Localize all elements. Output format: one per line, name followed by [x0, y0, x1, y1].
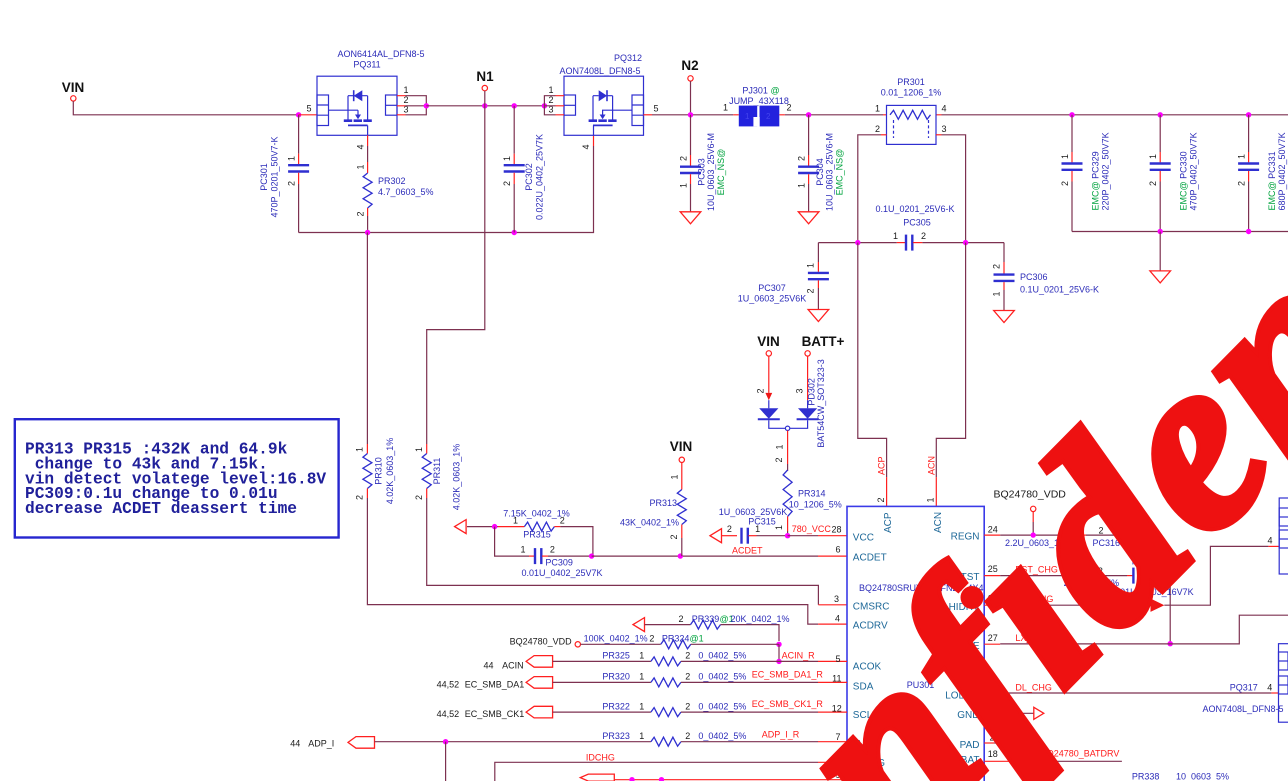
svg-text:5: 5	[653, 104, 658, 114]
svg-text:1: 1	[287, 156, 297, 161]
svg-text:4.02K_0603_1%: 4.02K_0603_1%	[385, 438, 395, 505]
svg-text:44,52: 44,52	[437, 709, 460, 719]
net arrow (left) for PC315	[710, 529, 722, 543]
capacitor PC303 with ground	[679, 115, 727, 224]
svg-text:PR324: PR324	[662, 634, 690, 644]
transistor PQ316 (right edge, partial)	[1279, 498, 1288, 574]
svg-text:PR301: PR301	[897, 77, 925, 87]
resistor PR313 43K	[620, 463, 686, 557]
svg-text:VIN: VIN	[670, 439, 693, 454]
svg-text:1: 1	[404, 85, 409, 95]
svg-text:2: 2	[797, 156, 807, 161]
svg-text:2: 2	[875, 124, 880, 134]
transistor PQ311 AON6414AL_DFN8-5 (P-FET)	[317, 49, 429, 150]
svg-text:1: 1	[356, 164, 366, 169]
net arrow ACDET off-page (left)	[455, 520, 467, 534]
svg-text:EMC@ PC329: EMC@ PC329	[1091, 151, 1101, 210]
svg-text:1: 1	[806, 263, 816, 268]
red flow arrow on DH wire	[1151, 599, 1165, 612]
svg-text:2: 2	[678, 614, 683, 624]
svg-text:ACIN: ACIN	[502, 661, 524, 671]
svg-text:EC_SMB_DA1: EC_SMB_DA1	[465, 680, 525, 690]
capacitor PC307 with ground	[738, 243, 829, 322]
svg-text:43K_0402_1%: 43K_0402_1%	[620, 518, 679, 528]
capacitor PC316	[1005, 526, 1121, 549]
svg-text:2: 2	[502, 181, 512, 186]
svg-text:0.1U_0201_25V6-K: 0.1U_0201_25V6-K	[1020, 285, 1099, 295]
wire EMC cap bottom bus with ground	[1072, 231, 1288, 233]
svg-text:PQ311: PQ311	[353, 60, 380, 70]
svg-text:0_0402_5%: 0_0402_5%	[698, 651, 746, 661]
svg-text:470P_0402_50V7K: 470P_0402_50V7K	[1189, 132, 1199, 210]
svg-text:780_VCC: 780_VCC	[792, 524, 832, 534]
svg-text:PR338: PR338	[1132, 772, 1160, 781]
svg-text:ACP: ACP	[877, 456, 887, 475]
svg-text:BAT54CW_SOT323-3: BAT54CW_SOT323-3	[816, 359, 826, 447]
svg-text:1: 1	[797, 183, 807, 188]
svg-text:AON7408L_DFN8-5: AON7408L_DFN8-5	[1202, 704, 1283, 714]
svg-text:100K_0402_1%: 100K_0402_1%	[584, 634, 648, 644]
net arrow REGN (right)	[1121, 528, 1131, 540]
svg-text:PC306: PC306	[1020, 272, 1048, 282]
pin 4 stub of PQ312	[593, 135, 595, 146]
wire DH net to PQ316	[984, 604, 1000, 606]
wire wrap connecting pins 1,2,3	[406, 96, 427, 115]
capacitor PC301	[259, 115, 309, 233]
svg-text:2: 2	[649, 634, 654, 644]
svg-text:1: 1	[679, 183, 689, 188]
capacitor PC304 with ground	[797, 115, 845, 224]
svg-text:220P_0402_50V7K: 220P_0402_50V7K	[1101, 132, 1111, 210]
wire stub into PQ311 pin 5	[299, 114, 317, 116]
svg-text:2: 2	[685, 651, 690, 661]
svg-text:PR323: PR323	[602, 731, 630, 741]
wire PJ301 to PR301	[785, 114, 883, 116]
svg-text:PC305: PC305	[903, 218, 931, 228]
svg-text:1: 1	[639, 701, 644, 711]
svg-text:@1: @1	[690, 634, 704, 644]
svg-text:20K_0402_1%: 20K_0402_1%	[731, 614, 790, 624]
ground	[680, 212, 701, 224]
svg-text:0.022U_0402_25V7K: 0.022U_0402_25V7K	[535, 134, 545, 220]
pin 2 wire of PR301 down to PC305	[881, 134, 887, 136]
svg-text:2: 2	[1237, 181, 1247, 186]
wire PAD pin with arrow	[984, 742, 994, 744]
svg-text:N2: N2	[681, 58, 698, 73]
svg-text:2: 2	[806, 288, 816, 293]
svg-text:1: 1	[502, 156, 512, 161]
node VIN (mid, feeds PR313)	[670, 439, 693, 462]
wire pin 9 row (partial at bottom edge)	[580, 770, 847, 781]
wire PQ312 pin5 to N2	[652, 114, 733, 116]
svg-text:1: 1	[639, 651, 644, 661]
wire VIN to PQ311 pin5 junction	[73, 101, 296, 115]
wire common cathode	[769, 420, 808, 428]
svg-text:44: 44	[290, 739, 300, 749]
svg-text:1: 1	[669, 474, 679, 479]
svg-text:1: 1	[893, 231, 898, 241]
svg-text:ACN: ACN	[926, 456, 936, 475]
svg-text:3: 3	[795, 388, 805, 393]
svg-text:ACP: ACP	[883, 512, 894, 533]
svg-text:1: 1	[745, 112, 750, 121]
pin 1,2,3 stubs of PQ312	[556, 96, 565, 115]
svg-text:28: 28	[831, 525, 841, 535]
svg-text:ACDET: ACDET	[732, 546, 763, 556]
IC PU301 BQ24780 charger controller	[847, 506, 984, 781]
svg-text:ADP_I: ADP_I	[308, 739, 334, 749]
capacitor PC315	[719, 507, 788, 544]
svg-text:10_0603_5%: 10_0603_5%	[1176, 772, 1229, 781]
svg-text:2: 2	[774, 457, 784, 462]
diode PD302-B	[798, 408, 817, 418]
wire PR310 to ACDRV pin 4	[367, 498, 818, 624]
capacitor PC329	[1060, 115, 1111, 232]
svg-text:PR313: PR313	[649, 498, 677, 508]
wire REGN net	[984, 534, 1000, 536]
svg-text:PC307: PC307	[758, 283, 786, 293]
svg-text:PQ312: PQ312	[614, 53, 642, 63]
svg-text:2: 2	[414, 495, 424, 500]
svg-text:BQ24780_VDD: BQ24780_VDD	[510, 637, 573, 647]
svg-text:PC301: PC301	[259, 163, 269, 191]
net BQ24780_VDD terminal (REGN)	[994, 489, 1067, 536]
svg-text:2: 2	[560, 516, 565, 526]
diode PD302-A	[759, 408, 778, 418]
svg-text:VIN: VIN	[62, 80, 85, 95]
svg-text:2: 2	[287, 181, 297, 186]
svg-text:10_1206_5%: 10_1206_5%	[789, 500, 842, 510]
svg-text:AON6414AL_DFN8-5: AON6414AL_DFN8-5	[337, 49, 424, 59]
svg-text:10U_0603_25V6-M: 10U_0603_25V6-M	[706, 133, 716, 211]
pin 5 stub of PQ312	[644, 114, 653, 116]
svg-text:2: 2	[1060, 181, 1070, 186]
svg-text:1: 1	[513, 516, 518, 526]
svg-text:PC303: PC303	[697, 158, 707, 186]
svg-text:2: 2	[669, 534, 679, 539]
svg-text:1: 1	[926, 497, 936, 502]
svg-text:PR314: PR314	[798, 489, 826, 499]
wire BST net	[984, 575, 1000, 577]
svg-text:PR302: PR302	[378, 176, 406, 186]
note box (design change note)	[15, 419, 339, 537]
svg-text:2: 2	[766, 112, 771, 121]
svg-text:PR315: PR315	[523, 530, 551, 540]
svg-text:PR320: PR320	[602, 672, 630, 682]
signal row EC_SMB_CK1 with resistor PR322	[437, 699, 847, 719]
svg-text:N1: N1	[476, 69, 494, 84]
svg-text:1: 1	[723, 103, 728, 113]
ground	[798, 212, 819, 224]
red flow arrow	[765, 393, 772, 400]
svg-text:2: 2	[355, 495, 365, 500]
resistor PR339 with value	[645, 614, 790, 641]
svg-text:470P_0201_50V7-K: 470P_0201_50V7-K	[270, 136, 280, 217]
svg-text:AON7408L_DFN8-5: AON7408L_DFN8-5	[559, 66, 640, 76]
svg-text:2: 2	[685, 672, 690, 682]
svg-text:4: 4	[1267, 683, 1272, 693]
svg-text:VCC: VCC	[853, 532, 874, 543]
watermark Confidential	[525, 0, 1288, 781]
svg-text:PR339: PR339	[692, 614, 720, 624]
svg-text:1: 1	[520, 545, 525, 555]
svg-text:BATT+: BATT+	[802, 334, 845, 349]
wire BATT+ to diode anode	[807, 356, 809, 400]
svg-text:PC302: PC302	[524, 163, 534, 191]
svg-text:1: 1	[549, 85, 554, 95]
svg-text:1: 1	[875, 104, 880, 114]
wire BAT net BQ24780_BATDRV	[984, 760, 1012, 762]
pin 1,2,3 stubs of PQ311	[397, 96, 406, 115]
wire ACN sense line to IC	[936, 243, 965, 478]
svg-text:10U_0603_25V6-M: 10U_0603_25V6-M	[825, 133, 835, 211]
svg-text:1: 1	[775, 444, 785, 449]
resistor PR310	[355, 233, 396, 505]
svg-text:2: 2	[1148, 181, 1158, 186]
svg-text:2: 2	[921, 231, 926, 241]
wire GND pin with arrow	[984, 712, 994, 714]
svg-text:0.1U_0201_25V6-K: 0.1U_0201_25V6-K	[875, 204, 954, 214]
jumper PJ301 JUMP_43X118	[723, 86, 792, 127]
svg-text:PQ317: PQ317	[1230, 683, 1258, 693]
node N2	[681, 58, 698, 118]
svg-text:2: 2	[679, 156, 689, 161]
svg-text:JUMP_43X118: JUMP_43X118	[729, 96, 789, 106]
svg-text:1: 1	[755, 524, 760, 534]
svg-text:EMC_NS@: EMC_NS@	[716, 149, 726, 196]
resistor PR301 0.01_1206_1% (current sense, 4-pin)	[858, 77, 966, 243]
svg-text:4: 4	[942, 104, 947, 114]
svg-text:0.01U_0402_25V7K: 0.01U_0402_25V7K	[521, 568, 602, 578]
svg-text:IDCHG: IDCHG	[586, 753, 615, 763]
pin 4 stub of PQ311	[367, 135, 369, 146]
resistor PR302	[356, 146, 434, 233]
resistor PR311	[414, 444, 462, 511]
wire wrap connecting pins 1,2,3 of PQ312	[544, 96, 555, 115]
signal row ADP_I with resistor PR323	[290, 730, 847, 781]
svg-text:1: 1	[1060, 154, 1070, 159]
svg-text:EMC_NS@: EMC_NS@	[835, 149, 845, 196]
svg-text:decrease ACDET deassert time: decrease ACDET deassert time	[25, 500, 297, 518]
wire ACDET net to IC pin 6	[592, 555, 818, 557]
pin 3 wire of PR301 down to PC305	[936, 134, 942, 136]
node junction at PC301 tap	[296, 112, 301, 117]
svg-text:PC304: PC304	[815, 158, 825, 186]
wire DL net to PQ317	[984, 693, 1000, 695]
wire VIN to diode anode	[768, 356, 770, 393]
svg-text:2: 2	[727, 524, 732, 534]
resistor 2.2_0603_5% (BST series)	[1064, 566, 1133, 588]
svg-text:44: 44	[483, 661, 493, 671]
svg-text:1: 1	[639, 672, 644, 682]
wire VCC net to IC pin 28	[788, 535, 818, 537]
net arrow ACDRV row (left)	[633, 618, 645, 632]
capacitor PC302	[502, 106, 545, 233]
svg-text:2: 2	[992, 264, 1002, 269]
transistor PQ312 AON7408L_DFN8-5	[544, 53, 658, 135]
wire PR311 to CMSRC pin 3	[427, 498, 819, 605]
svg-text:2: 2	[356, 211, 366, 216]
svg-text:1: 1	[992, 291, 1002, 296]
wire PQ311 to PQ312 (N1 net)	[426, 105, 544, 107]
svg-text:1: 1	[774, 525, 784, 530]
svg-text:PR311: PR311	[432, 458, 442, 485]
node VIN (top-left input terminal)	[62, 80, 85, 101]
wire N1 down to PR311	[427, 106, 485, 444]
svg-text:EMC@ PC330: EMC@ PC330	[1179, 151, 1189, 210]
svg-text:PC309: PC309	[545, 557, 573, 567]
wire PHASE net (LX_CHG)	[984, 643, 1000, 645]
transistor PQ317 (right edge, partial)	[1202, 644, 1288, 723]
capacitor PC309 parallel	[495, 527, 603, 578]
svg-text:6: 6	[835, 545, 840, 555]
svg-text:2: 2	[550, 545, 555, 555]
node N1	[476, 69, 494, 106]
svg-text:PR310: PR310	[374, 457, 384, 485]
svg-text:EC_SMB_CK1: EC_SMB_CK1	[465, 709, 525, 719]
svg-text:1U_0603_25V6K: 1U_0603_25V6K	[719, 507, 788, 517]
signal row EC_SMB_DA1 with resistor PR320	[437, 670, 847, 690]
svg-text:PJ301 @: PJ301 @	[742, 86, 779, 96]
ground	[994, 311, 1015, 323]
wire top rail PR301 to right edge	[942, 114, 1288, 116]
svg-text:2: 2	[685, 731, 690, 741]
capacitor PC330	[1148, 115, 1199, 232]
svg-text:1U_0603_25V6K: 1U_0603_25V6K	[738, 294, 807, 304]
wire ACP sense line to IC	[858, 243, 887, 478]
svg-text:PD302: PD302	[807, 378, 817, 406]
svg-text:4: 4	[581, 144, 591, 149]
capacitor PC318	[1113, 557, 1194, 644]
svg-text:5: 5	[306, 104, 311, 114]
wire to PR315	[467, 526, 498, 528]
capacitor PC331	[1237, 115, 1288, 232]
wire bottom loop PC301/PR302/PC302/PQ312-pin4	[299, 146, 594, 233]
wire IDCHG net to pin 8	[495, 750, 847, 781]
svg-text:44,52: 44,52	[437, 680, 460, 690]
svg-text:3: 3	[942, 124, 947, 134]
svg-text:1: 1	[1148, 154, 1158, 159]
svg-text:2: 2	[787, 103, 792, 113]
net BQ24780_VDD terminal with pull-up resistor PR324	[510, 634, 779, 649]
svg-text:1: 1	[639, 731, 644, 741]
svg-text:PR325: PR325	[602, 651, 630, 661]
svg-text:PC315: PC315	[748, 517, 776, 527]
svg-text:0_0402_5%: 0_0402_5%	[698, 672, 746, 682]
wire PR324/PR339 down to ACIN_R	[778, 644, 780, 661]
capacitor PC306 with ground	[992, 243, 1100, 323]
svg-text:4.7_0603_5%: 4.7_0603_5%	[378, 187, 434, 197]
svg-text:2: 2	[756, 388, 766, 393]
ground	[808, 310, 829, 322]
power nodes VIN / BATT+ with dual diode PD302	[756, 334, 845, 464]
svg-text:4: 4	[356, 144, 366, 149]
signal row ACIN with resistor PR325	[483, 651, 847, 671]
svg-text:2: 2	[876, 497, 886, 502]
svg-text:VIN: VIN	[757, 334, 780, 349]
capacitor PC305 (sense filter)	[818, 204, 1004, 251]
ground	[1150, 271, 1171, 283]
svg-text:1: 1	[414, 447, 424, 452]
svg-text:PR322: PR322	[602, 701, 630, 711]
svg-text:4.02K_0603_1%: 4.02K_0603_1%	[452, 444, 462, 511]
svg-text:1: 1	[355, 447, 365, 452]
svg-text:1: 1	[1237, 154, 1247, 159]
resistor PR314 10_1206	[774, 457, 842, 535]
svg-text:2: 2	[685, 701, 690, 711]
resistor PR315 7.15K	[498, 509, 593, 557]
svg-text:0.01_1206_1%: 0.01_1206_1%	[881, 88, 942, 98]
